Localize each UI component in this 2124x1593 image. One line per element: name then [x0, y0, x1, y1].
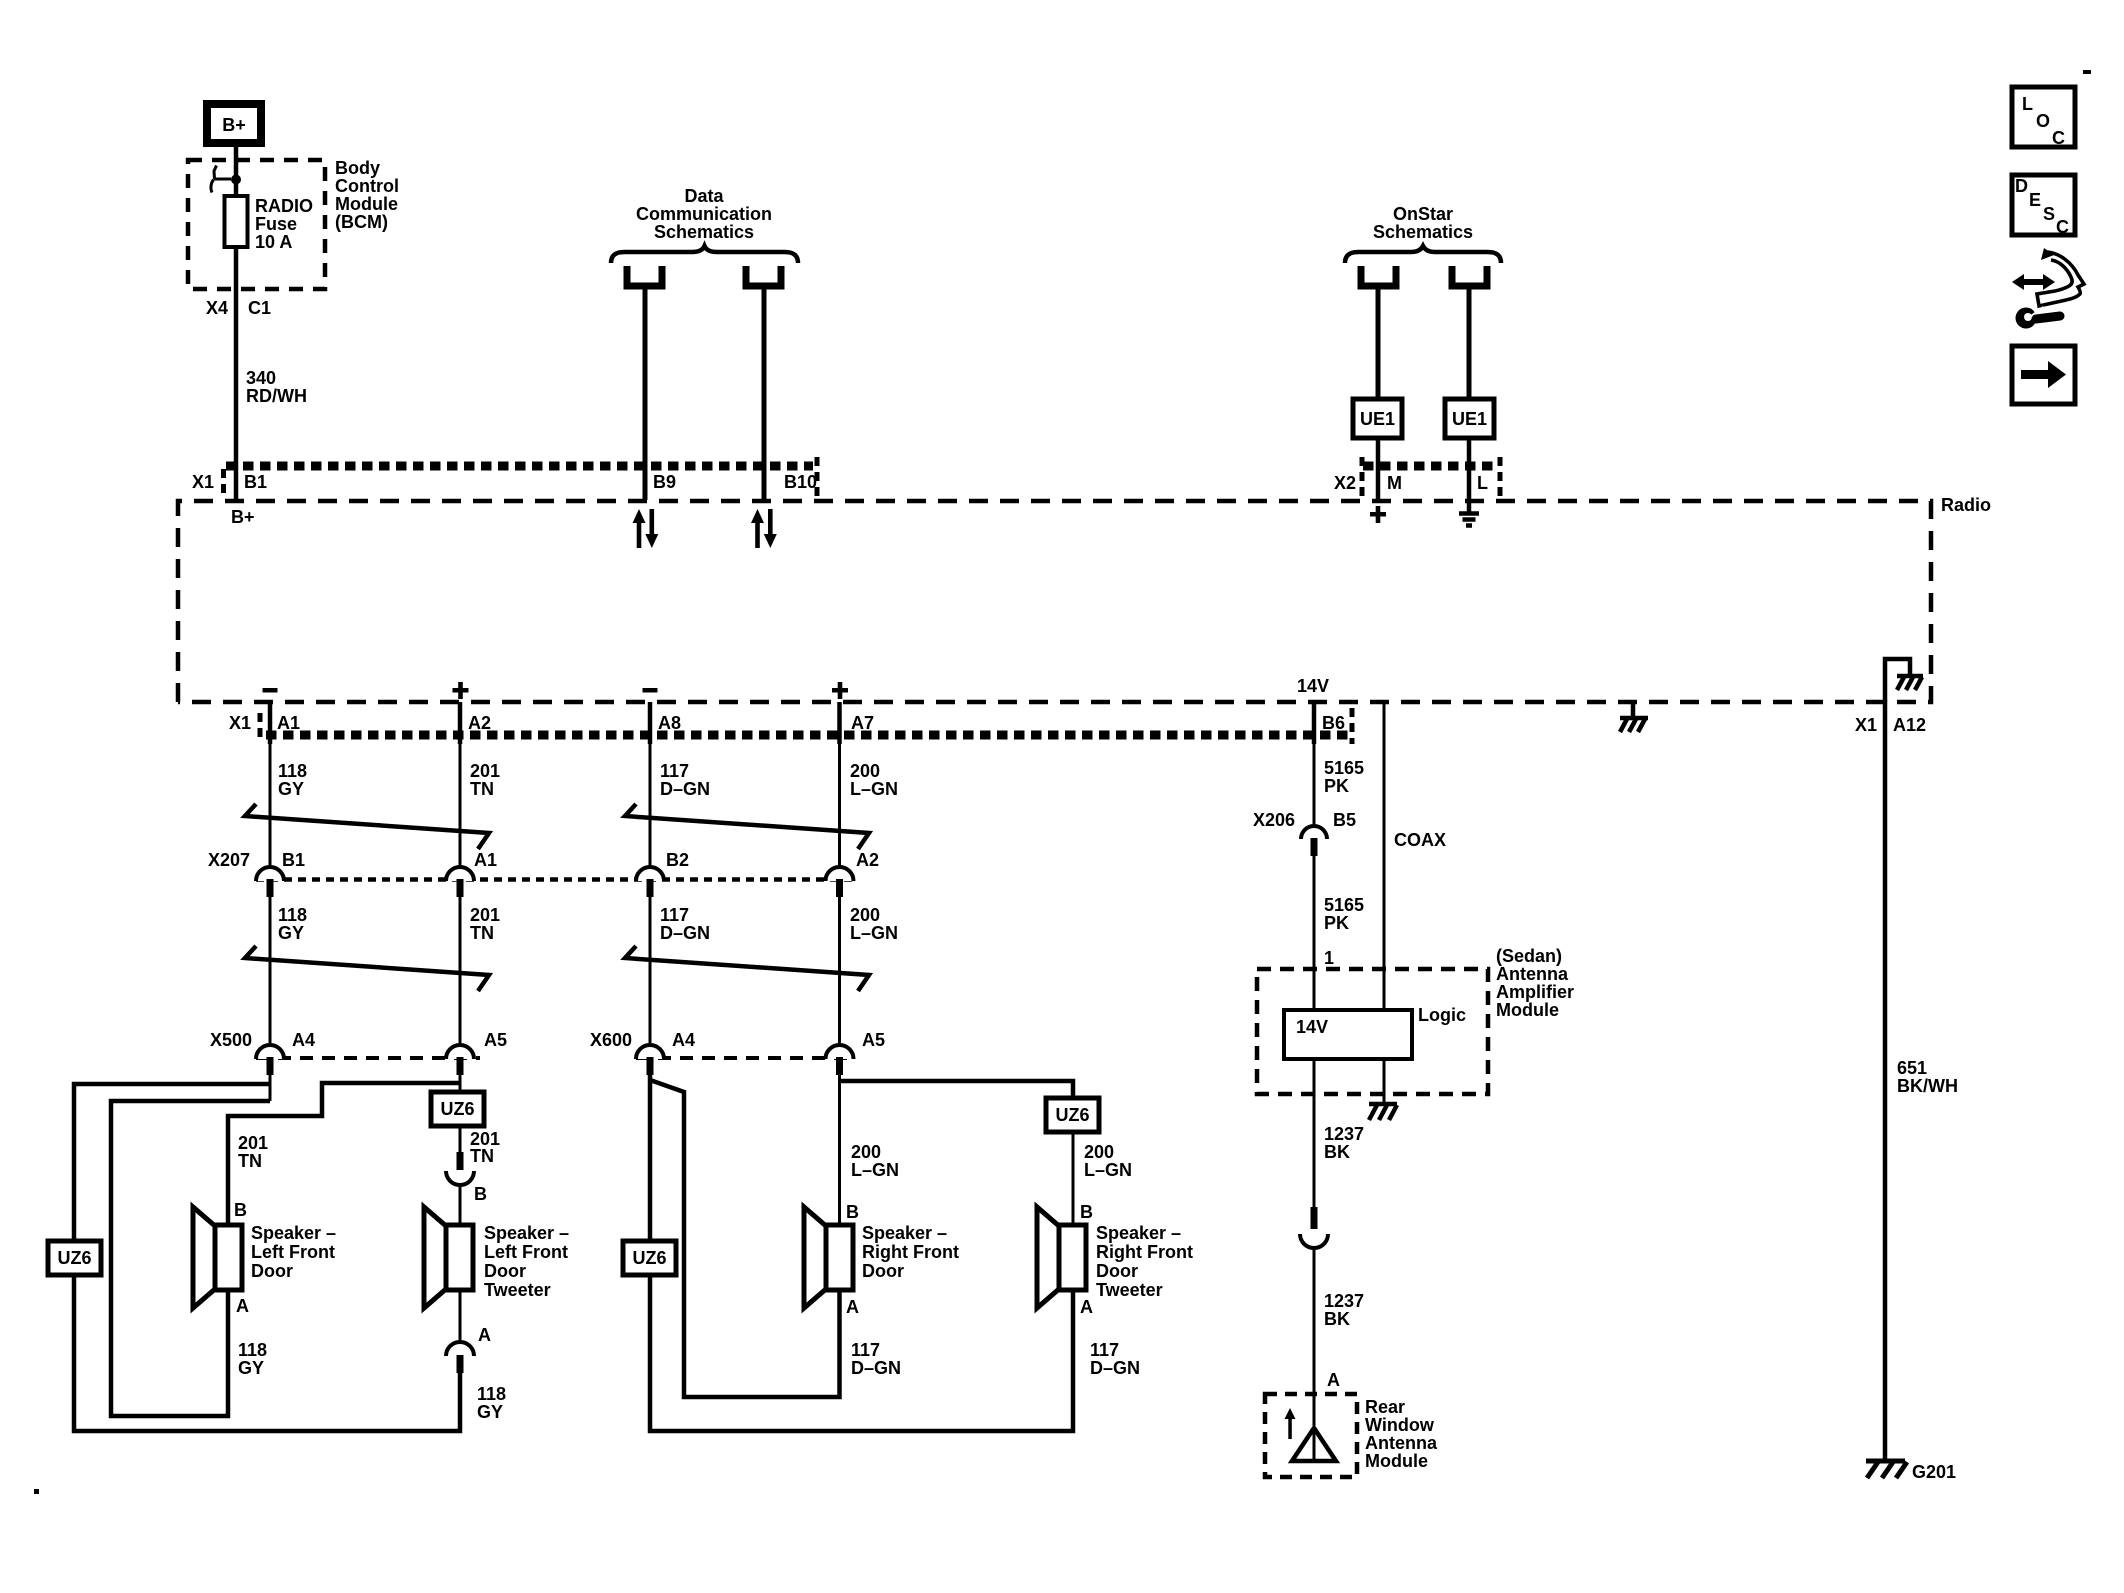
svg-text:118: 118	[278, 905, 307, 925]
option tag UZ6 right tweeter circuit	[1046, 1098, 1099, 1132]
svg-text:C1: C1	[248, 298, 271, 318]
chassis ground symbol at A12 internal	[1897, 676, 1923, 690]
wire to radio X1-B10	[762, 286, 767, 500]
svg-text:C: C	[2052, 128, 2065, 148]
svg-text:L–GN: L–GN	[851, 1160, 899, 1180]
page corner tick bottom left	[34, 1489, 39, 1494]
svg-text:L–GN: L–GN	[1084, 1160, 1132, 1180]
wire label 1237 BK	[1324, 1124, 1364, 1162]
wire label 201 TN	[470, 905, 500, 943]
svg-text:118: 118	[477, 1384, 506, 1404]
X1 connector separator dash	[221, 469, 226, 496]
wire label 5165 PK	[1324, 895, 1364, 933]
plus polarity label A7	[832, 682, 848, 699]
svg-text:X1: X1	[192, 472, 214, 492]
wire label 118 GY tweeter	[477, 1384, 506, 1422]
fuse tag UE1 (L circuit)	[1445, 399, 1494, 438]
data connector bracket B10	[746, 266, 781, 286]
svg-text:X4: X4	[206, 298, 228, 318]
COAX wire radio to antenna amplifier	[1383, 702, 1386, 1010]
twisted pair marker right front	[625, 804, 869, 849]
svg-text:14V: 14V	[1296, 1017, 1328, 1037]
svg-text:BK/WH: BK/WH	[1897, 1076, 1958, 1096]
Antenna Amplifier Module dashed box	[1257, 969, 1488, 1094]
svg-text:X500: X500	[210, 1030, 252, 1050]
svg-text:Door: Door	[484, 1261, 526, 1281]
svg-text:RD/WH: RD/WH	[246, 386, 307, 406]
serial data up/down arrows B10	[751, 509, 777, 548]
X206 inline terminal (socket and pin)	[1301, 826, 1327, 856]
label Rear Window Antenna Module	[1365, 1397, 1438, 1471]
wire to tweeter B	[459, 1185, 462, 1225]
label Speaker Left Front Door Tweeter	[484, 1223, 569, 1300]
connector X207 dotted line	[256, 877, 853, 882]
svg-text:B9: B9	[653, 472, 676, 492]
wire label 201 TN tweeter	[470, 1129, 500, 1166]
BCM label	[335, 158, 399, 232]
wire 340 RD/WH fuse to radio X1-B1	[234, 247, 239, 500]
label (Sedan) Antenna Amplifier Module	[1496, 946, 1574, 1020]
svg-text:UZ6: UZ6	[57, 1248, 91, 1268]
wire 5165 PK X206 to antenna amplifier pin 1	[1313, 856, 1316, 1010]
svg-text:1237: 1237	[1324, 1124, 1364, 1144]
wire 118 GY radio A1 to X207-B1	[269, 744, 272, 868]
wire label 200 L-GN right door	[851, 1142, 899, 1180]
svg-text:B2: B2	[666, 850, 689, 870]
svg-text:D–GN: D–GN	[851, 1358, 901, 1378]
X600 terminal A4 (socket and pin)	[636, 1045, 664, 1075]
svg-text:A2: A2	[856, 850, 879, 870]
plus polarity label A2	[453, 682, 469, 699]
junction node on B+ wire	[231, 175, 241, 185]
icon box LOC	[2012, 87, 2075, 148]
wire 201 TN radio A2 to X207-A1	[459, 744, 462, 868]
svg-text:(Sedan): (Sedan)	[1496, 946, 1562, 966]
speaker Right Front Door Tweeter	[1037, 1207, 1086, 1308]
wire X500-A5 stub down	[459, 1075, 462, 1092]
X500 terminal A4 (socket and pin)	[256, 1045, 284, 1075]
svg-text:S: S	[2043, 204, 2055, 224]
svg-text:Right Front: Right Front	[862, 1242, 959, 1262]
svg-text:A4: A4	[292, 1030, 315, 1050]
chassis ground symbol amplifier	[1369, 1104, 1397, 1120]
svg-text:Module: Module	[1496, 1000, 1559, 1020]
wire 200 L-GN X207 to X600	[838, 897, 841, 1046]
svg-text:C: C	[2056, 217, 2069, 237]
svg-text:340: 340	[246, 368, 276, 388]
X207 terminal B2 (socket and pin)	[636, 867, 664, 897]
radio pin wire B6	[1312, 702, 1317, 744]
svg-text:A5: A5	[862, 1030, 885, 1050]
wire label 118 GY	[278, 761, 307, 799]
wire 200 L-GN radio A7 to X207-A2	[838, 744, 841, 868]
svg-text:Schematics: Schematics	[654, 222, 754, 242]
svg-text:117: 117	[1090, 1340, 1119, 1360]
twisted pair marker right door run	[625, 946, 869, 991]
svg-text:A2: A2	[468, 713, 491, 733]
svg-text:B: B	[474, 1184, 487, 1204]
wire label 117 D-GN	[660, 905, 710, 943]
speaker Left Front Door	[193, 1207, 242, 1308]
option tag UZ6 left tweeter circuit	[431, 1092, 484, 1126]
svg-text:A7: A7	[851, 713, 874, 733]
svg-text:1237: 1237	[1324, 1291, 1364, 1311]
wire 651 BK/WH radio A12 to G201	[1883, 700, 1888, 1461]
svg-text:UZ6: UZ6	[632, 1248, 666, 1268]
X600 terminal A5 (socket and pin)	[826, 1045, 854, 1075]
svg-text:L: L	[1477, 473, 1488, 493]
svg-text:GY: GY	[477, 1402, 503, 1422]
svg-text:Speaker –: Speaker –	[484, 1223, 569, 1243]
wire label 651 BK/WH	[1897, 1058, 1958, 1096]
svg-text:BK: BK	[1324, 1142, 1350, 1162]
svg-text:Rear: Rear	[1365, 1397, 1405, 1417]
wire UE1 to radio X2-L	[1467, 438, 1472, 500]
svg-text:A: A	[478, 1325, 491, 1345]
connector X2 dotted line	[1363, 462, 1499, 471]
svg-text:UZ6: UZ6	[1055, 1105, 1089, 1125]
svg-text:Door: Door	[1096, 1261, 1138, 1281]
svg-text:X206: X206	[1253, 810, 1295, 830]
svg-text:Data: Data	[684, 186, 724, 206]
svg-text:RADIO: RADIO	[255, 196, 313, 216]
svg-text:A4: A4	[672, 1030, 695, 1050]
label Speaker Left Front Door	[251, 1223, 336, 1281]
svg-text:COAX: COAX	[1394, 830, 1446, 850]
wire A5 branch to door speaker B	[228, 1083, 460, 1225]
inline terminal 1237 BK (pin above socket)	[1300, 1207, 1328, 1248]
svg-text:PK: PK	[1324, 776, 1349, 796]
svg-text:A: A	[1327, 1370, 1340, 1390]
svg-text:117: 117	[851, 1340, 880, 1360]
svg-text:B6: B6	[1322, 713, 1345, 733]
svg-text:X1: X1	[1855, 715, 1877, 735]
X207 terminal A2 (socket and pin)	[826, 867, 854, 897]
wire label 118 GY	[278, 905, 307, 943]
wire 117 D-GN bottom run to right tweeter A	[648, 1290, 1073, 1431]
radio pin wire A8	[648, 702, 653, 744]
svg-text:Communication: Communication	[636, 204, 772, 224]
svg-text:5165: 5165	[1324, 758, 1364, 778]
svg-text:A5: A5	[484, 1030, 507, 1050]
wire A5 branch to right tweeter UZ6	[840, 1081, 1074, 1098]
wire 118 GY X207 to X500	[269, 897, 272, 1046]
svg-text:Door: Door	[251, 1261, 293, 1281]
brace over OnStar wires	[1345, 246, 1501, 263]
svg-text:G201: G201	[1912, 1462, 1956, 1482]
wire UZ6 to bottom run	[72, 1275, 77, 1433]
svg-text:Antenna: Antenna	[1365, 1433, 1438, 1453]
svg-text:(BCM): (BCM)	[335, 212, 388, 232]
wire label 201 TN door	[238, 1133, 268, 1171]
svg-text:1: 1	[1324, 948, 1334, 968]
internal ground wire at radio X1-A12	[1885, 659, 1910, 702]
svg-text:Antenna: Antenna	[1496, 964, 1569, 984]
svg-text:201: 201	[470, 905, 500, 925]
svg-text:10 A: 10 A	[255, 232, 292, 252]
ground G201 chassis symbol	[1866, 1461, 1907, 1478]
connector X600 dashed line	[636, 1056, 853, 1060]
antenna direction arrow	[1285, 1408, 1296, 1439]
svg-text:TN: TN	[238, 1151, 262, 1171]
antenna element symbol	[1292, 1428, 1336, 1461]
svg-text:Body: Body	[335, 158, 380, 178]
minus polarity label A8	[643, 688, 658, 693]
X207 terminal B1 (socket and pin)	[256, 867, 284, 897]
svg-text:E: E	[2029, 190, 2041, 210]
svg-text:B5: B5	[1333, 810, 1356, 830]
svg-text:BK: BK	[1324, 1309, 1350, 1329]
svg-text:118: 118	[278, 761, 307, 781]
wire label 118 GY door	[238, 1340, 267, 1378]
plus mark above OnStar M pin	[1370, 506, 1386, 523]
wire label 201 TN	[470, 761, 500, 799]
wire label 117 D-GN right tweeter	[1090, 1340, 1140, 1378]
brace over data communication wires	[611, 246, 798, 263]
wire X500-A4 stub down	[269, 1075, 272, 1101]
svg-text:200: 200	[850, 905, 880, 925]
wire label 200 L-GN right tweeter	[1084, 1142, 1132, 1180]
OnStar connector bracket L	[1452, 266, 1487, 286]
svg-text:Door: Door	[862, 1261, 904, 1281]
svg-text:L–GN: L–GN	[850, 923, 898, 943]
svg-text:A: A	[236, 1296, 249, 1316]
svg-text:A8: A8	[658, 713, 681, 733]
RADIO Fuse 10 A label	[255, 196, 313, 252]
svg-text:A1: A1	[277, 713, 300, 733]
svg-text:GY: GY	[278, 923, 304, 943]
svg-text:B1: B1	[282, 850, 305, 870]
svg-text:Speaker –: Speaker –	[251, 1223, 336, 1243]
wire door speaker A return	[111, 1101, 270, 1416]
minus polarity label A1	[263, 688, 278, 693]
connector X1 bottom row dotted line	[266, 731, 1350, 740]
svg-text:B1: B1	[244, 472, 267, 492]
wire OnStar to UE1	[1376, 286, 1381, 399]
svg-text:14V: 14V	[1297, 676, 1329, 696]
OnStar connector bracket M	[1361, 266, 1396, 286]
connector X1 top row dotted line	[226, 462, 813, 471]
svg-text:UE1: UE1	[1452, 409, 1487, 429]
wire OnStar to UE1	[1467, 286, 1472, 399]
X2 separator dash right	[1498, 457, 1503, 497]
svg-text:A: A	[846, 1297, 859, 1317]
wire X600-A4 down through UZ6	[648, 1075, 653, 1433]
svg-text:Window: Window	[1365, 1415, 1435, 1435]
svg-text:Amplifier: Amplifier	[1496, 982, 1574, 1002]
amplifier 14V logic block	[1284, 1010, 1412, 1059]
wire label 1237 BK	[1324, 1291, 1364, 1329]
svg-text:Right Front: Right Front	[1096, 1242, 1193, 1262]
earth ground symbol OnStar L	[1459, 499, 1479, 526]
svg-text:200: 200	[1084, 1142, 1114, 1162]
wire 1237 BK amplifier down	[1313, 1059, 1316, 1209]
svg-text:B10: B10	[784, 472, 817, 492]
wire 201 TN X207 to X500	[459, 897, 462, 1046]
wire label 340 RD/WH	[246, 368, 307, 406]
svg-text:Radio: Radio	[1941, 495, 1991, 515]
svg-text:TN: TN	[470, 1146, 494, 1166]
svg-text:Module: Module	[335, 194, 398, 214]
svg-text:OnStar: OnStar	[1393, 204, 1453, 224]
connector X500 dashed line	[256, 1056, 480, 1060]
svg-text:201: 201	[470, 761, 500, 781]
radio pin wire A7	[837, 702, 842, 744]
svg-text:TN: TN	[470, 779, 494, 799]
Radio component dashed box	[178, 501, 1931, 702]
wire junction to fuse	[234, 160, 239, 196]
wire 5165 PK B6 to X206	[1313, 744, 1316, 827]
svg-text:Left Front: Left Front	[484, 1242, 568, 1262]
Body Control Module (BCM) dashed box	[188, 160, 325, 289]
chassis ground on radio case (below box)	[1620, 703, 1648, 732]
svg-text:GY: GY	[238, 1358, 264, 1378]
Data Communication Schematics title	[636, 186, 772, 242]
fuse RADIO 10A body	[225, 196, 248, 247]
svg-text:X600: X600	[590, 1030, 632, 1050]
svg-text:Tweeter: Tweeter	[1096, 1280, 1163, 1300]
svg-text:118: 118	[238, 1340, 267, 1360]
svg-text:D–GN: D–GN	[660, 779, 710, 799]
svg-text:201: 201	[238, 1133, 268, 1153]
wire 201 TN below UZ6	[459, 1126, 462, 1154]
svg-text:UZ6: UZ6	[440, 1099, 474, 1119]
wire tweeter A terminal	[459, 1290, 462, 1343]
OnStar Schematics title	[1373, 204, 1473, 242]
wire label 200 L-GN	[850, 761, 898, 799]
svg-text:B: B	[234, 1200, 247, 1220]
svg-text:Tweeter: Tweeter	[484, 1280, 551, 1300]
X2 separator dash left	[1360, 457, 1365, 497]
svg-text:L: L	[2022, 94, 2033, 114]
svg-text:A12: A12	[1893, 715, 1926, 735]
page corner tick top right	[2083, 70, 2091, 74]
svg-text:5165: 5165	[1324, 895, 1364, 915]
icon data exchange arrow	[2012, 248, 2084, 306]
X500 terminal A5 (socket and pin)	[446, 1045, 474, 1075]
fuse tag UE1 (M circuit)	[1353, 399, 1402, 438]
inline terminal tweeter A (socket above pin)	[446, 1342, 474, 1373]
svg-text:Logic: Logic	[1418, 1005, 1466, 1025]
Rear Window Antenna Module dashed box	[1265, 1394, 1357, 1477]
wire 1237 BK to rear window antenna module pin A	[1313, 1248, 1316, 1461]
svg-text:X207: X207	[208, 850, 250, 870]
svg-text:D: D	[2015, 176, 2028, 196]
wire 200 L-GN UZ6 to right tweeter B	[1072, 1132, 1075, 1225]
svg-text:Speaker –: Speaker –	[862, 1223, 947, 1243]
X1 bottom right separator dash	[1350, 708, 1355, 744]
svg-text:UE1: UE1	[1360, 409, 1395, 429]
svg-text:200: 200	[850, 761, 880, 781]
icon box DESC	[2012, 175, 2075, 237]
X1 bottom separator dash	[258, 713, 263, 740]
svg-text:Control: Control	[335, 176, 399, 196]
twisted pair marker left front	[245, 804, 489, 849]
wire 117 D-GN radio A8 to X207-B2	[649, 744, 652, 868]
svg-text:Module: Module	[1365, 1451, 1428, 1471]
svg-text:B: B	[846, 1202, 859, 1222]
switch contact squiggle inside BCM	[211, 166, 231, 193]
wire 118 GY bottom run to tweeter A	[72, 1373, 460, 1431]
svg-text:B+: B+	[222, 115, 246, 135]
svg-text:117: 117	[660, 761, 689, 781]
svg-text:651: 651	[1897, 1058, 1927, 1078]
icon wrench	[2016, 306, 2061, 329]
wire label 5165 PK	[1324, 758, 1364, 796]
svg-text:M: M	[1387, 473, 1402, 493]
svg-text:PK: PK	[1324, 913, 1349, 933]
X207 terminal A1 (socket and pin)	[446, 867, 474, 897]
twisted pair marker left door run	[245, 946, 489, 991]
wire X600-A5 to right door speaker B	[838, 1075, 841, 1225]
svg-text:Left Front: Left Front	[251, 1242, 335, 1262]
svg-text:GY: GY	[278, 779, 304, 799]
svg-text:D–GN: D–GN	[660, 923, 710, 943]
svg-text:TN: TN	[470, 923, 494, 943]
wire 117 D-GN X207 to X600	[649, 897, 652, 1046]
wire label 200 L-GN	[850, 905, 898, 943]
radio pin wire A1	[268, 702, 273, 744]
option tag UZ6 left front door circuit	[48, 1241, 101, 1275]
svg-text:B+: B+	[231, 507, 255, 527]
svg-text:Fuse: Fuse	[255, 214, 297, 234]
wire label 117 D-GN	[660, 761, 710, 799]
wire to radio X1-B9	[643, 286, 648, 500]
B+ power terminal box	[207, 104, 261, 143]
svg-text:200: 200	[851, 1142, 881, 1162]
svg-text:B: B	[1080, 1202, 1093, 1222]
data connector bracket B9	[627, 266, 662, 286]
wire UE1 to radio X2-M	[1376, 438, 1381, 500]
speaker Right Front Door	[804, 1207, 853, 1308]
wire B+ terminal to BCM	[234, 147, 239, 160]
svg-text:O: O	[2036, 111, 2050, 131]
speaker Left Front Door Tweeter	[424, 1207, 473, 1308]
svg-text:Schematics: Schematics	[1373, 222, 1473, 242]
svg-text:L–GN: L–GN	[850, 779, 898, 799]
serial data up/down arrows B9	[633, 509, 659, 548]
label Speaker Right Front Door	[862, 1223, 959, 1281]
amplifier logic ground stub	[1383, 1059, 1386, 1102]
icon box next arrow	[2012, 346, 2075, 404]
svg-text:A1: A1	[474, 850, 497, 870]
svg-text:Speaker –: Speaker –	[1096, 1223, 1181, 1243]
svg-text:117: 117	[660, 905, 689, 925]
wire A4 branch to left UZ6 loop	[74, 1084, 270, 1241]
svg-text:D–GN: D–GN	[1090, 1358, 1140, 1378]
wire A4 jog branch to right door speaker A	[650, 1080, 840, 1397]
X1 connector right separator dash	[815, 457, 820, 497]
wire label 117 D-GN right door	[851, 1340, 901, 1378]
inline terminal tweeter B (pin above socket)	[446, 1152, 474, 1185]
svg-text:X2: X2	[1334, 473, 1356, 493]
label Speaker Right Front Door Tweeter	[1096, 1223, 1193, 1300]
svg-text:A: A	[1080, 1297, 1093, 1317]
svg-text:X1: X1	[229, 713, 251, 733]
option tag UZ6 right front door circuit	[623, 1241, 676, 1275]
radio pin wire A2	[458, 702, 463, 744]
